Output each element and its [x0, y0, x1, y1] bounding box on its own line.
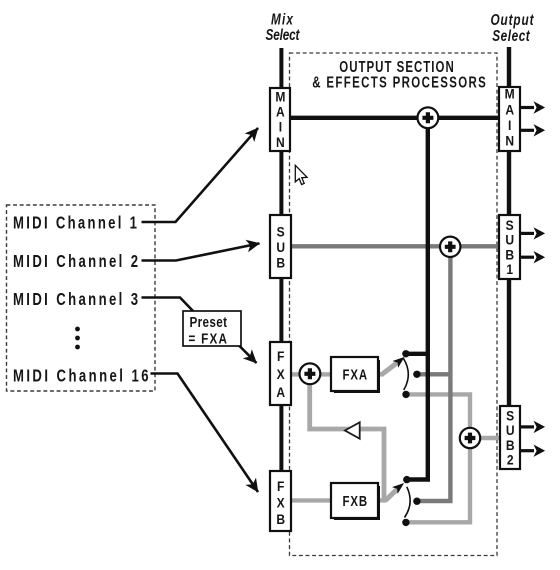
- svg-text:FXA: FXA: [343, 366, 368, 383]
- wire MIDI Channel 2 to SUB: [142, 243, 260, 260]
- SUB bus wire: [291, 244, 500, 248]
- svg-text:& EFFECTS PROCESSORS: & EFFECTS PROCESSORS: [312, 74, 486, 91]
- svg-text:OUTPUT SECTION: OUTPUT SECTION: [339, 58, 453, 75]
- svg-text:Select: Select: [266, 27, 301, 44]
- svg-text:A: A: [505, 101, 514, 117]
- svg-text:B: B: [506, 437, 515, 453]
- wire MIDI Channel 1 to MAIN: [142, 128, 259, 222]
- FXA switch travel arc: [404, 359, 409, 391]
- FXB switch wiper: [386, 488, 399, 500]
- output arrows SUB1: [520, 232, 534, 235]
- output section dashed box: [290, 53, 498, 556]
- svg-text:2: 2: [507, 452, 514, 468]
- feedback wire FXB junction to FXA summing node: [310, 382, 384, 500]
- wire MIDI Channel 16 to FXB: [151, 374, 259, 493]
- output arrows MAIN: [520, 106, 534, 109]
- svg-text:S: S: [506, 407, 514, 423]
- svg-text:MIDI Channel 3: MIDI Channel 3: [13, 290, 138, 309]
- svg-text:B: B: [276, 255, 285, 271]
- output select box MAIN: [499, 86, 521, 152]
- wire MIDI Channel 3 to Preset box: [142, 298, 194, 312]
- svg-text:S: S: [506, 217, 514, 233]
- svg-text:Preset: Preset: [190, 314, 228, 331]
- FXA switch top contact: [402, 350, 409, 357]
- FXB effects processor box: [331, 483, 380, 520]
- FXB switch top contact: [403, 476, 410, 483]
- feedback buffer triangle: [345, 422, 360, 438]
- summing node at SUB2: [460, 428, 480, 448]
- FXA switch middle contact: [413, 371, 420, 378]
- svg-text:B: B: [505, 246, 514, 262]
- svg-text:1: 1: [506, 261, 513, 277]
- svg-text:MIDI Channel 2: MIDI Channel 2: [13, 252, 138, 271]
- FXB input wire from FXB mix select: [291, 498, 331, 502]
- svg-text:U: U: [506, 422, 515, 438]
- svg-text:U: U: [276, 239, 285, 255]
- svg-text:B: B: [276, 511, 285, 527]
- svg-text:F: F: [277, 348, 284, 364]
- FXA switch wiper: [382, 362, 399, 375]
- svg-text:N: N: [276, 134, 285, 150]
- svg-text:FXB: FXB: [343, 493, 368, 510]
- FXB switch wiper arrowhead: [392, 483, 404, 494]
- mix select box FXB: [270, 471, 292, 532]
- svg-text:U: U: [505, 232, 514, 248]
- Preset = FXA callout box: [183, 311, 241, 347]
- svg-text:I: I: [508, 117, 511, 133]
- FXA to SUB1 wire (dark gray, middle contact): [417, 255, 450, 501]
- mix select box MAIN: [270, 88, 291, 152]
- FXA effects processor box: [331, 357, 380, 393]
- svg-text:X: X: [277, 366, 285, 382]
- FXB switch bottom contact: [402, 519, 409, 526]
- svg-text:I: I: [279, 119, 282, 135]
- summing node at SUB1: [440, 237, 460, 257]
- summing node at MAIN bus: [418, 107, 439, 128]
- FXB switch middle contact: [413, 498, 420, 505]
- FXB to SUB2 wire (light gray, bottom contact): [406, 448, 470, 522]
- mouse cursor: [295, 165, 307, 184]
- Output Select bus (vertical): [507, 47, 511, 469]
- output arrows SUB2: [520, 425, 534, 428]
- wire Preset box to FXA: [238, 345, 257, 364]
- Mix Select bus (vertical): [279, 48, 283, 532]
- svg-text:A: A: [276, 384, 285, 400]
- output select box SUB2: [500, 406, 521, 470]
- svg-text:N: N: [505, 133, 514, 149]
- svg-text:M: M: [505, 86, 515, 102]
- svg-text:X: X: [277, 495, 285, 511]
- SUB2 summing node output wire: [478, 436, 500, 440]
- summing node at FXA input: [300, 363, 321, 384]
- FXB processor output wire: [378, 498, 387, 502]
- svg-text:= FXA: = FXA: [189, 330, 228, 347]
- svg-text:F: F: [277, 478, 284, 494]
- svg-text:Mix: Mix: [271, 11, 294, 28]
- svg-text:MIDI Channel 1: MIDI Channel 1: [13, 214, 137, 233]
- FXB switch travel arc: [405, 487, 411, 518]
- svg-text:MIDI Channel 16: MIDI Channel 16: [13, 367, 149, 386]
- MAIN bus wire: [290, 116, 500, 120]
- FXA switch bottom contact: [402, 391, 409, 398]
- FXA switch wiper arrowhead: [393, 357, 405, 368]
- output select box SUB1: [499, 215, 521, 280]
- ellipsis dots: [75, 327, 80, 332]
- mix select box FXA: [270, 342, 292, 406]
- mix select box SUB: [270, 215, 292, 279]
- svg-text:S: S: [277, 224, 285, 240]
- effects sum wire (black vertical): [406, 120, 428, 480]
- svg-text:Select: Select: [492, 28, 531, 45]
- FXA processor output wire: [378, 372, 384, 376]
- svg-text:Output: Output: [490, 11, 534, 28]
- svg-text:A: A: [276, 104, 285, 120]
- FXA to SUB2 wire (light gray, bottom contact): [406, 394, 470, 430]
- FXA summing node to FXA processor wire: [318, 372, 331, 376]
- MIDI channels dashed group box: [7, 205, 156, 391]
- FXA input wire from FXA mix select: [291, 372, 302, 376]
- svg-text:M: M: [275, 88, 285, 104]
